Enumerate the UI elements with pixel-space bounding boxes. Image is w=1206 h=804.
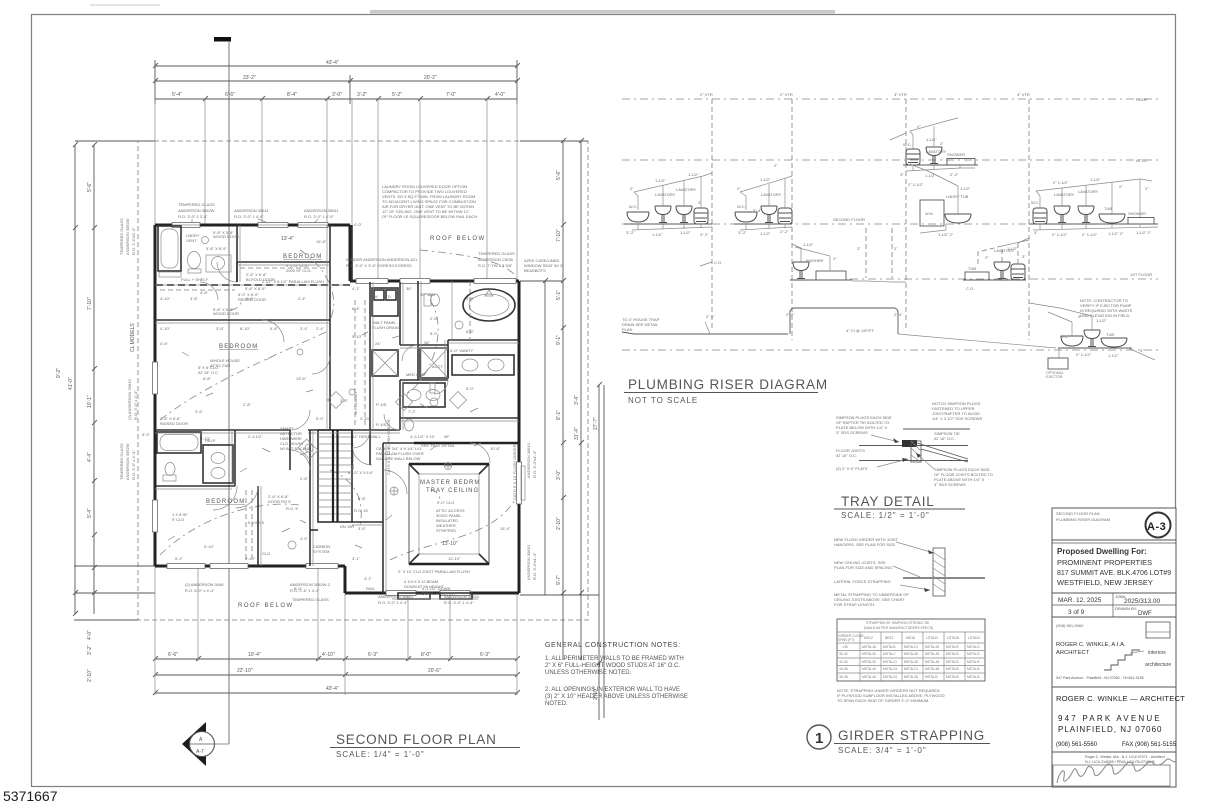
svg-text:36": 36": [444, 434, 450, 439]
svg-text:1-1/2": 1-1/2": [803, 242, 814, 247]
svg-text:interiors: interiors: [1148, 650, 1166, 656]
svg-text:1-1/2" 2": 1-1/2" 2": [938, 232, 954, 237]
svg-text:8'-4": 8'-4": [287, 92, 297, 98]
svg-text:3" SDS SCREWS: 3" SDS SCREWS: [934, 482, 966, 487]
top dimension line 23'-2" / 20'-2": [153, 75, 520, 104]
svg-text:1-1/2": 1-1/2": [652, 232, 663, 237]
svg-text:SYSTEM: SYSTEM: [313, 549, 329, 554]
svg-text:9'-0" CLG: 9'-0" CLG: [437, 500, 454, 505]
svg-text:20'-6": 20'-6": [428, 668, 441, 674]
svg-text:R.O. 7' TW 8 3 3/8": R.O. 7' TW 8 3 3/8": [478, 263, 513, 268]
windows in bottom walls: [167, 564, 470, 596]
svg-text:6'-3": 6'-3": [368, 652, 378, 658]
svg-text:5'-4": 5'-4": [172, 92, 182, 98]
svg-text:3'-6": 3'-6": [195, 409, 204, 414]
svg-text:22'-10": 22'-10": [237, 668, 253, 674]
svg-text:LNDRY TUB: LNDRY TUB: [946, 194, 969, 199]
exterior walls: [155, 225, 519, 593]
svg-text:UNLESS OTHERWISE NOTED.: UNLESS OTHERWISE NOTED.: [545, 670, 632, 676]
svg-text:WINDER ANDERSON ANDERSON A21: WINDER ANDERSON ANDERSON A21: [346, 257, 418, 262]
license lines and signature: [1053, 755, 1176, 786]
vent stack 3: [894, 92, 907, 330]
svg-text:1-1/2": 1-1/2": [688, 172, 699, 177]
architect logo block: [1056, 622, 1171, 680]
right wall window seat: [517, 462, 522, 504]
svg-text:5'-8" X 8'-9": 5'-8" X 8'-9": [245, 286, 266, 291]
svg-text:DRAWN BY:: DRAWN BY:: [1115, 606, 1137, 611]
svg-text:W.C.: W.C.: [903, 142, 912, 147]
svg-text:ANDERSON 3062W: ANDERSON 3062W: [125, 443, 130, 480]
svg-text:27'-?": 27'-?": [593, 417, 599, 430]
svg-text:PLUMBING RISER DIAGRAM: PLUMBING RISER DIAGRAM: [628, 377, 828, 392]
svg-text:1-1/2": 1-1/2": [760, 177, 771, 182]
svg-text:34-36: 34-36: [839, 667, 848, 671]
svg-text:MASTER BEDRM: MASTER BEDRM: [420, 480, 480, 486]
svg-text:10'-1": 10'-1": [87, 395, 93, 408]
svg-text:13'-4": 13'-4": [281, 236, 294, 242]
svg-text:(2) ANDERSON 30610: (2) ANDERSON 30610: [127, 379, 132, 420]
master bedroom bold wall accents: [409, 443, 519, 564]
svg-text:36": 36": [406, 286, 412, 291]
svg-text:MSTA-B: MSTA-B: [946, 667, 959, 671]
svg-text:SECOND FLOOR PLAN: SECOND FLOOR PLAN: [336, 732, 497, 747]
svg-text:BR12: BR12: [885, 636, 894, 640]
svg-text:ROOF BELOW: ROOF BELOW: [430, 236, 486, 242]
svg-text:2" 1-1/2": 2" 1-1/2": [1082, 232, 1098, 237]
svg-text:ANDERSON 30611: ANDERSON 30611: [304, 208, 339, 213]
svg-text:R.O. 3'-0"x4'-4": R.O. 3'-0"x4'-4": [532, 552, 537, 580]
svg-text:RAISED DOOR: RAISED DOOR: [160, 421, 188, 426]
svg-text:<30: <30: [842, 645, 848, 649]
svg-text:2" 1-1/2": 2" 1-1/2": [908, 182, 924, 187]
svg-text:3": 3": [1140, 348, 1144, 353]
svg-text:PLAN FOR SIZE AND SPACING.: PLAN FOR SIZE AND SPACING.: [834, 565, 893, 570]
title block date/job rows: [1058, 594, 1161, 617]
svg-text:2'-6": 2'-6": [300, 476, 309, 481]
svg-text:P. 4/S.: P. 4/S.: [376, 402, 388, 407]
svg-text:SEE TRAY DETAIL: SEE TRAY DETAIL: [421, 443, 456, 448]
svg-text:CATH 9' X 10' FLUSH GIRDER: CATH 9' X 10' FLUSH GIRDER: [386, 419, 391, 475]
bottom dimension 22'-10" / 20'-6": [153, 672, 520, 677]
svg-text:ANDERSON 3062W: ANDERSON 3062W: [178, 208, 215, 213]
roof outline dashed rectangle: [138, 141, 588, 620]
svg-text:4'-0": 4'-0": [495, 92, 505, 98]
dashed ceiling arcs: [160, 250, 515, 560]
svg-text:W.C.: W.C.: [629, 204, 638, 209]
svg-text:6'-10": 6'-10": [245, 556, 256, 561]
svg-text:1: 1: [815, 730, 823, 747]
riser level line 1ST FLOOR: [850, 272, 1158, 279]
svg-text:4'-1": 4'-1": [364, 576, 373, 581]
svg-text:1-1/2": 1-1/2": [926, 137, 937, 142]
svg-text:GIRDER STRAPPING: GIRDER STRAPPING: [838, 728, 985, 743]
bottom dimension small segments row: [153, 656, 520, 661]
svg-text:AT 16" O.C.: AT 16" O.C.: [934, 436, 955, 441]
svg-text:SPAN (FT): SPAN (FT): [838, 638, 854, 642]
svg-text:13'-10": 13'-10": [442, 541, 458, 547]
windows in top wall: [172, 223, 328, 228]
svg-text:LATERAL FORCE STRAPPING: LATERAL FORCE STRAPPING: [834, 579, 891, 584]
svg-text:MSTA-21: MSTA-21: [883, 660, 897, 664]
svg-text:SECOND FLOOR PLAN: SECOND FLOOR PLAN: [1056, 511, 1100, 516]
top dimension line small segments: [155, 96, 517, 101]
svg-text:6'-4": 6'-4": [352, 306, 361, 311]
fixture cluster A: 2nd floor hall bath: [624, 172, 712, 237]
svg-text:LINE ELEVATION IN FIELD.: LINE ELEVATION IN FIELD.: [1080, 313, 1131, 318]
svg-text:4'-0": 4'-0": [300, 536, 309, 541]
girder strapping heading with marker 1: [807, 725, 990, 755]
svg-text:P. 4/S.: P. 4/S.: [376, 422, 388, 427]
right dimension chain lines: [520, 138, 604, 720]
tray detail notes top right: [932, 401, 983, 421]
svg-text:23'-2": 23'-2": [243, 75, 256, 81]
svg-text:WOOD DOOR: WOOD DOOR: [213, 311, 239, 316]
fixture cluster C: attic level bath: [890, 118, 978, 178]
svg-text:R.O. 3'-0" x 4'-4": R.O. 3'-0" x 4'-4": [133, 390, 138, 420]
svg-text:9' CLG: 9' CLG: [172, 517, 184, 522]
svg-text:2" VTR: 2" VTR: [700, 92, 713, 97]
svg-text:10'-4": 10'-4": [248, 652, 261, 658]
svg-text:W.C.: W.C.: [1031, 200, 1040, 205]
interior walls left section: [155, 225, 519, 593]
svg-text:WASHER: WASHER: [806, 258, 824, 263]
girder strapping notes: [834, 537, 910, 607]
svg-text:2": 2": [833, 256, 837, 261]
fixture cluster D: W.H. and laundry tub: [908, 164, 971, 237]
svg-text:36": 36": [424, 340, 430, 345]
svg-text:MED CAB: MED CAB: [406, 372, 425, 377]
svg-text:WESTFIELD, NEW JERSEY: WESTFIELD, NEW JERSEY: [1057, 578, 1153, 587]
svg-text:MSTA-21: MSTA-21: [904, 667, 918, 671]
top dimension line 43'-4": [153, 60, 520, 104]
svg-text:SCALE: 1/2" = 1'-0": SCALE: 1/2" = 1'-0": [841, 511, 930, 520]
scan texture marks: [168, 298, 481, 548]
left wall windows: [153, 362, 158, 394]
svg-text:MAR. 12, 2025: MAR. 12, 2025: [1058, 597, 1102, 604]
SECOND FLOOR PLAN heading: [330, 732, 520, 759]
svg-text:3": 3": [1022, 254, 1026, 259]
svg-text:3" 2": 3" 2": [700, 232, 709, 237]
svg-text:3"-2": 3"-2": [626, 230, 635, 235]
girder strapping table: [837, 619, 985, 681]
ejector note: [1080, 298, 1133, 318]
svg-text:3'-0": 3'-0": [556, 470, 562, 480]
svg-text:32-34: 32-34: [839, 660, 848, 664]
svg-text:BEADBOTS: BEADBOTS: [524, 268, 546, 273]
fixture cluster G: first floor laundry/washer: [790, 228, 906, 282]
tray detail heading: [834, 494, 965, 520]
reference section cut line: black tick top: [214, 37, 231, 744]
svg-text:PLAN: PLAN: [622, 327, 633, 332]
svg-text:MSTA-B: MSTA-B: [946, 645, 959, 649]
svg-text:EJECTOR: EJECTOR: [1046, 375, 1063, 379]
additional door arcs: [200, 282, 490, 508]
svg-text:FULL + SHELF: FULL + SHELF: [181, 277, 209, 282]
svg-text:MSTA-B: MSTA-B: [967, 660, 980, 664]
svg-text:4'-10": 4'-10": [322, 652, 335, 658]
svg-text:LAVATORY: LAVATORY: [676, 187, 697, 192]
svg-text:TO SPAN EACH SIDE OF GIRDER 2': TO SPAN EACH SIDE OF GIRDER 2'-0" MINIMU…: [837, 698, 930, 703]
svg-text:8'-10": 8'-10": [240, 326, 251, 331]
double-line interior wall shadows: [155, 225, 519, 593]
laundry machines: [372, 288, 398, 376]
svg-text:2" 4": 2" 4": [786, 312, 795, 317]
svg-text:3" VTR: 3" VTR: [1017, 92, 1030, 97]
master bedroom tray ceiling: [409, 464, 489, 564]
svg-text:4'-0": 4'-0": [354, 222, 363, 227]
svg-text:2"-2": 2"-2": [780, 229, 789, 234]
svg-text:STRIPPED: STRIPPED: [436, 528, 456, 533]
svg-text:31'-4": 31'-4": [574, 427, 580, 440]
svg-text:3 of 9: 3 of 9: [1068, 609, 1085, 616]
svg-text:42" HIGH WALL: 42" HIGH WALL: [352, 434, 382, 439]
fixture cluster F: first floor powder: [963, 238, 1029, 291]
top dimension extension lines down to plan: [155, 99, 517, 281]
top scan smudge bar: [370, 10, 835, 14]
extra fixture details master bath: [430, 281, 493, 393]
svg-text:ROGER C. WINKLE, A.I.A.: ROGER C. WINKLE, A.I.A.: [1056, 642, 1126, 648]
svg-text:TEMPERED GLASS: TEMPERED GLASS: [119, 218, 124, 255]
svg-text:43'-4": 43'-4": [326, 686, 339, 692]
closet dashed shelving: [240, 267, 328, 269]
svg-text:947 PARK AVENUE: 947 PARK AVENUE: [1058, 714, 1162, 723]
svg-text:FOR STRAP LENGTH.: FOR STRAP LENGTH.: [834, 602, 875, 607]
svg-text:2" 1-1/2": 2" 1-1/2": [1076, 352, 1092, 357]
svg-text:R.O. 2'-6" x 4'-4": R.O. 2'-6" x 4'-4": [131, 450, 136, 480]
svg-text:1-1/2": 1-1/2": [960, 186, 971, 191]
fixture cluster B: 2nd floor bath 2: [700, 163, 792, 266]
riser level line basement: [622, 349, 1158, 351]
svg-text:4'-6": 4'-6": [160, 341, 169, 346]
svg-text:2'-8": 2'-8": [430, 316, 439, 321]
svg-text:TEMPERED GLASS: TEMPERED GLASS: [478, 251, 515, 256]
svg-text:TEMPERED GLASS: TEMPERED GLASS: [178, 202, 215, 207]
svg-text:1-1/2": 1-1/2": [655, 178, 666, 183]
svg-text:2'-8": 2'-8": [243, 402, 252, 407]
windows in right-section top wall: [356, 279, 516, 284]
svg-text:9'-7": 9'-7": [556, 575, 562, 585]
svg-text:9'-2": 9'-2": [56, 368, 62, 378]
svg-text:2025/313.00: 2025/313.00: [1124, 598, 1161, 605]
svg-text:3'-2": 3'-2": [87, 645, 93, 655]
hall walls near stairs: [258, 430, 383, 566]
svg-text:2": 2": [917, 124, 921, 129]
svg-text:MSTA-48: MSTA-48: [925, 667, 939, 671]
svg-text:ANDERSON 30610: ANDERSON 30610: [526, 544, 531, 580]
svg-text:W/ BAT BACKUP: W/ BAT BACKUP: [280, 446, 311, 451]
note under table: [837, 688, 945, 703]
svg-text:architecture: architecture: [1145, 662, 1171, 668]
section cut vertical line: [228, 41, 230, 744]
svg-text:6'-0": 6'-0": [294, 586, 303, 591]
svg-text:TEMPERED GLASS: TEMPERED GLASS: [292, 597, 329, 602]
svg-text:5'-8": 5'-8": [270, 326, 279, 331]
svg-text:2": 2": [985, 255, 989, 260]
svg-text:7'-2": 7'-2": [408, 409, 417, 414]
svg-text:5'-1": 5'-1": [556, 290, 562, 300]
svg-text:R.O. 6'-0" x 4'-4": R.O. 6'-0" x 4'-4": [185, 588, 215, 593]
svg-text:30-32: 30-32: [839, 652, 848, 656]
svg-text:DOOR RO 5': DOOR RO 5': [268, 499, 291, 504]
svg-text:MSTA-16: MSTA-16: [862, 645, 876, 649]
girder strapping drawing: [893, 542, 985, 596]
svg-text:15'-4": 15'-4": [500, 526, 511, 531]
svg-text:MSTA-D: MSTA-D: [967, 652, 980, 656]
svg-text:GENERAL CONSTRUCTION NOTES:: GENERAL CONSTRUCTION NOTES:: [545, 642, 681, 649]
svg-text:7'-10": 7'-10": [87, 297, 93, 310]
svg-text:2" X 6" FULL-HEIGHT WOOD STUDS: 2" X 6" FULL-HEIGHT WOOD STUDS AT 16" O.…: [545, 663, 680, 669]
tray detail notes left: [836, 415, 892, 435]
svg-text:6'-6": 6'-6": [225, 92, 235, 98]
svg-text:MSTA-24: MSTA-24: [883, 667, 897, 671]
svg-text:FLUSH DRAIN: FLUSH DRAIN: [372, 325, 399, 330]
svg-text:(3) 2" X 10" HEADER ABOVE UNLE: (3) 2" X 10" HEADER ABOVE UNLESS OTHERWI…: [545, 694, 688, 700]
svg-text:4'-10": 4'-10": [160, 326, 171, 331]
svg-text:PLAINFIELD, NJ 07060: PLAINFIELD, NJ 07060: [1058, 725, 1162, 734]
svg-text:BEDROOM: BEDROOM: [206, 499, 245, 505]
svg-text:8'-0": 8'-0": [421, 652, 431, 658]
svg-text:2" 1-1/2": 2" 1-1/2": [1052, 232, 1068, 237]
svg-text:BEDROOM: BEDROOM: [283, 254, 322, 260]
svg-text:2": 2": [1119, 184, 1123, 189]
general construction notes: [545, 642, 688, 707]
svg-text:2": 2": [894, 246, 898, 251]
svg-text:GARAGE WALL BELOW: GARAGE WALL BELOW: [376, 456, 421, 461]
fixture cluster H: basement bath: [1029, 303, 1155, 379]
svg-text:1-1/2" 2": 1-1/2" 2": [1136, 230, 1152, 235]
svg-text:ANDERSON 3062W: ANDERSON 3062W: [125, 218, 130, 255]
svg-text:FAX (908) 561-5155: FAX (908) 561-5155: [1122, 742, 1177, 748]
svg-text:2000 SF CLG.: 2000 SF CLG.: [286, 268, 312, 273]
closet rod dashed lower left: [245, 490, 247, 562]
bottom extension lines: [155, 566, 517, 695]
svg-text:LSTA12: LSTA12: [926, 636, 938, 640]
tray detail small notes: [836, 448, 993, 487]
svg-text:CLO: CLO: [262, 551, 270, 556]
svg-text:9'-10": 9'-10": [204, 544, 215, 549]
svg-text:LAVATORY: LAVATORY: [1078, 189, 1099, 194]
svg-text:STRAPPING BY SIMPSON STRONG-TI: STRAPPING BY SIMPSON STRONG-TIE: [866, 621, 930, 625]
title block sheet name + number: [1056, 511, 1171, 538]
svg-text:AT 16" O.C.: AT 16" O.C.: [836, 453, 857, 458]
svg-text:(2) 2" X 6" PLATE: (2) 2" X 6" PLATE: [836, 466, 868, 471]
svg-text:PLUMBING RISER DIAGRAM: PLUMBING RISER DIAGRAM: [1056, 517, 1110, 522]
svg-text:R.O. 3'-0" 1 4'-4": R.O. 3'-0" 1 4'-4": [444, 600, 474, 605]
svg-text:1-1/2": 1-1/2": [1007, 246, 1018, 251]
svg-text:ATTIC: ATTIC: [1136, 158, 1147, 163]
svg-text:1ST FLOOR: 1ST FLOOR: [1130, 272, 1152, 277]
svg-text:4'-4": 4'-4": [87, 452, 93, 462]
svg-text:3'-0": 3'-0": [332, 92, 342, 98]
riser level line 2ND FLOOR: [622, 217, 1158, 224]
svg-text:5'-4": 5'-4": [87, 508, 93, 518]
hall bath fixtures (center): [403, 348, 448, 431]
svg-text:2" VTR: 2" VTR: [780, 92, 793, 97]
svg-text:5'-8": 5'-8": [466, 296, 475, 301]
svg-text:6'-3": 6'-3": [480, 652, 490, 658]
left dimension chain lines: [73, 141, 155, 620]
svg-text:1-1/2": 1-1/2": [1090, 177, 1101, 182]
svg-text:MSTA-B: MSTA-B: [946, 660, 959, 664]
svg-text:(908) 561-5960: (908) 561-5960: [1056, 623, 1084, 628]
svg-text:5'-2": 5'-2": [175, 556, 184, 561]
svg-text:1-1/2": 1-1/2": [925, 173, 936, 178]
svg-text:1-1/2": 1-1/2": [680, 230, 691, 235]
svg-text:3'-8": 3'-8": [216, 326, 225, 331]
window seat bay bottom of master: [392, 593, 478, 599]
svg-text:3'-6": 3'-6": [358, 526, 367, 531]
svg-text:MSTA-45: MSTA-45: [925, 645, 939, 649]
svg-text:1-1/2": 1-1/2": [1108, 353, 1119, 358]
svg-text:MSTA-40: MSTA-40: [862, 667, 876, 671]
top-left bathroom fixtures: [158, 226, 237, 282]
svg-text:9'-1": 9'-1": [556, 335, 562, 345]
svg-text:2'-4": 2'-4": [316, 326, 325, 331]
svg-text:BEDROOM: BEDROOM: [219, 344, 258, 350]
svg-text:A-7: A-7: [196, 749, 204, 755]
svg-text:W.H.: W.H.: [925, 211, 934, 216]
svg-text:LAVATORY: LAVATORY: [1054, 192, 1075, 197]
svg-text:C.O.: C.O.: [966, 286, 974, 291]
svg-text:7'-0": 7'-0": [446, 92, 456, 98]
svg-text:DWF: DWF: [1138, 611, 1152, 617]
svg-text:13'-6": 13'-6": [296, 376, 307, 381]
door arcs: [213, 320, 418, 510]
svg-text:5'-10": 5'-10": [352, 334, 363, 339]
svg-text:W.C.: W.C.: [1060, 334, 1069, 339]
svg-text:5'-6": 5'-6": [87, 182, 93, 192]
svg-text:MSTA-30: MSTA-30: [862, 652, 876, 656]
svg-text:(908) 561-5560: (908) 561-5560: [1056, 742, 1098, 748]
svg-text:MSTA-30: MSTA-30: [862, 660, 876, 664]
svg-text:817 SUMMIT AVE. BLK.4706 LOT#9: 817 SUMMIT AVE. BLK.4706 LOT#9: [1057, 570, 1171, 577]
svg-text:N.J. LIC# 21AB99 / PE#A LIC#: N.J. LIC# 21AB99 / PE#A LIC# PA-07186-B: [1085, 760, 1155, 764]
svg-text:A-3: A-3: [1147, 521, 1166, 533]
svg-text:HANGERS. SEE PLAN FOR SIZE.: HANGERS. SEE PLAN FOR SIZE.: [834, 542, 896, 547]
svg-text:4'-3 1/2" X 10': 4'-3 1/2" X 10': [410, 434, 435, 439]
svg-text:ROGER C. WINKLE — ARCHITECT: ROGER C. WINKLE — ARCHITECT: [1056, 694, 1185, 703]
svg-text:MSTA-D: MSTA-D: [967, 645, 980, 649]
svg-text:5'-6": 5'-6": [556, 170, 562, 180]
svg-text:NOTED.: NOTED.: [545, 701, 568, 707]
svg-text:MSTA-21: MSTA-21: [904, 645, 918, 649]
svg-text:2": 2": [857, 246, 861, 251]
svg-text:3": 3": [900, 172, 904, 177]
svg-text:2" 4": 2" 4": [894, 312, 903, 317]
svg-text:R.O. 3'-0" 1 4'-4": R.O. 3'-0" 1 4'-4": [378, 600, 408, 605]
svg-text:SHOWER: SHOWER: [947, 152, 965, 157]
svg-text:2. ALL OPENINGS IN EXTERIOR WA: 2. ALL OPENINGS IN EXTERIOR WALL TO HAVE: [545, 687, 680, 693]
svg-text:(2) ANDERSON 3046: (2) ANDERSON 3046: [185, 582, 224, 587]
svg-text:5"-8": 5"-8": [753, 208, 762, 213]
svg-text:LAVATORY: LAVATORY: [761, 192, 782, 197]
heavy dashed bearing wall: [156, 284, 350, 286]
svg-text:ROOF BELOW: ROOF BELOW: [238, 603, 294, 609]
svg-text:2": 2": [630, 186, 634, 191]
svg-text:R.O. 2'-6"x3'-4": R.O. 2'-6"x3'-4": [131, 227, 136, 255]
svg-text:2"-2": 2"-2": [950, 172, 959, 177]
svg-text:2": 2": [774, 163, 778, 168]
svg-text:ARCHITECT: ARCHITECT: [1056, 650, 1090, 656]
svg-text:2'-4 1/2": 2'-4 1/2": [248, 434, 263, 439]
svg-text:6 1/2" X 9 1/4": 6 1/2" X 9 1/4": [348, 470, 374, 475]
svg-text:2'-10": 2'-10": [556, 517, 562, 530]
vent stack 1: [700, 92, 713, 330]
svg-text:MSTA-25: MSTA-25: [904, 675, 918, 679]
svg-text:BI-FOLD DOOR: BI-FOLD DOOR: [246, 277, 275, 282]
svg-text:CL MODELS: CL MODELS: [130, 323, 136, 352]
stairs: [318, 430, 352, 522]
